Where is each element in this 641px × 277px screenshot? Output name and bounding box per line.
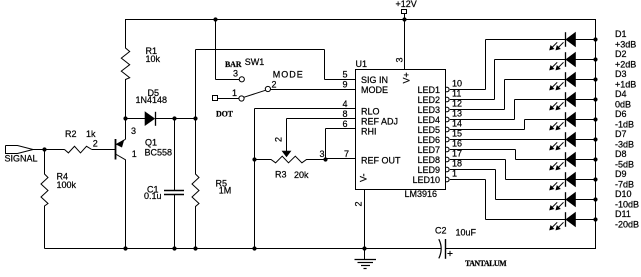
svg-text:-1dB: -1dB [615, 120, 634, 130]
node RLO to ground rail [252, 246, 256, 250]
svg-text:1: 1 [452, 169, 457, 179]
svg-text:2: 2 [93, 139, 98, 149]
svg-text:MODE: MODE [273, 69, 304, 79]
U1 LED output pin names [412, 85, 440, 185]
transistor Q1 BC558 [116, 119, 173, 249]
svg-text:R2: R2 [65, 129, 77, 139]
wire signal node to U1 pin 5 SIG IN [196, 50, 356, 119]
wire SIGNAL to R2/R4 [33, 149, 65, 151]
svg-text:15: 15 [452, 129, 462, 139]
svg-text:BAR: BAR [225, 60, 242, 69]
LED D10 -10dB [550, 189, 639, 210]
node LED D9 anode junction [593, 177, 597, 181]
+12V supply terminal [396, 0, 417, 20]
wire U1 pin 16 to LED cathode [450, 150, 565, 160]
svg-text:SW1: SW1 [245, 57, 265, 67]
wire U1 pin 4 RLO to ground rail [255, 109, 356, 249]
wire U1 pin 1 to LED cathode [450, 180, 565, 220]
svg-text:1k: 1k [86, 129, 96, 139]
svg-text:LED5: LED5 [417, 125, 440, 135]
op-amp U1 LM3916 body [356, 59, 446, 199]
svg-text:3: 3 [320, 149, 325, 159]
node LED D8 anode junction [593, 157, 597, 161]
svg-text:10: 10 [452, 79, 462, 89]
node ground junction [362, 246, 366, 250]
svg-text:18: 18 [452, 159, 462, 169]
svg-text:SIGNAL: SIGNAL [5, 154, 38, 164]
svg-text:SIG IN: SIG IN [361, 75, 388, 85]
U1 V+ pin 3 label [395, 57, 412, 83]
svg-text:3: 3 [233, 69, 238, 79]
svg-text:4: 4 [342, 99, 347, 109]
resistor R2 1k [65, 129, 97, 153]
svg-text:-5dB: -5dB [615, 160, 634, 170]
svg-text:LED10: LED10 [412, 175, 440, 185]
node D5/R5/signal junction [193, 116, 197, 120]
svg-text:REF OUT: REF OUT [361, 156, 401, 166]
node LED D4 anode junction [593, 97, 597, 101]
svg-text:7: 7 [344, 149, 349, 159]
svg-text:1: 1 [232, 88, 237, 98]
svg-text:Q1: Q1 [145, 138, 157, 148]
node LED D7 anode junction [593, 137, 597, 141]
svg-text:2: 2 [272, 79, 277, 89]
svg-text:D9: D9 [615, 169, 627, 179]
wire right anode rail [595, 20, 597, 250]
svg-text:TANTALUM: TANTALUM [465, 259, 507, 268]
svg-text:D11: D11 [615, 209, 631, 219]
LED D6 -1dB [550, 109, 634, 130]
LED D8 -5dB [550, 149, 634, 170]
svg-text:100k: 100k [57, 180, 77, 190]
switch SW1 lever and terminal 2 MODE [244, 69, 304, 97]
svg-text:5: 5 [342, 70, 347, 80]
svg-text:+2dB: +2dB [615, 60, 636, 70]
node LED D2 anode junction [593, 57, 597, 61]
svg-text:10uF: 10uF [456, 228, 477, 238]
svg-text:LED3: LED3 [417, 105, 440, 115]
node R3 right terminal junction [323, 157, 327, 161]
node top rail to SW1 branch [213, 17, 217, 21]
U1 left pin numbers [342, 70, 349, 160]
svg-text:+1dB: +1dB [615, 80, 636, 90]
svg-text:REF ADJ: REF ADJ [361, 117, 398, 127]
svg-text:8: 8 [342, 109, 347, 119]
svg-text:DOT: DOT [216, 110, 234, 119]
svg-text:MODE: MODE [361, 85, 388, 95]
svg-text:D6: D6 [615, 109, 627, 119]
wire +12V to U1 pin 3 [404, 20, 406, 70]
LED D11 -20dB [550, 209, 639, 230]
svg-text:LED9: LED9 [417, 165, 440, 175]
LED D2 +2dB [550, 49, 637, 70]
svg-text:D1: D1 [615, 29, 627, 39]
node R3 left terminal 1 [252, 157, 256, 161]
ground symbol [355, 249, 377, 269]
svg-text:20k: 20k [294, 170, 309, 180]
node +12V junction [402, 17, 406, 21]
svg-text:-3dB: -3dB [615, 140, 634, 150]
potentiometer R3 20k [255, 156, 326, 180]
resistor R4 100k [41, 150, 77, 249]
wire R2 to Q1 base, pin 2 [92, 139, 116, 150]
LED D9 -7dB [550, 169, 634, 190]
svg-text:LED7: LED7 [417, 145, 440, 155]
node R1/D5/Q1 junction [123, 116, 127, 120]
wire U1 pin 6 RHI to R3 terminal 3 [320, 129, 356, 160]
svg-text:+3dB: +3dB [615, 40, 636, 50]
svg-text:LED1: LED1 [417, 85, 440, 95]
switch SW1 terminal 3 BAR [225, 57, 264, 82]
svg-text:16: 16 [452, 139, 462, 149]
svg-text:+12V: +12V [396, 0, 417, 9]
node input junction [42, 147, 46, 151]
svg-text:3: 3 [395, 57, 405, 62]
LED D1 +3dB [550, 29, 637, 50]
svg-text:3: 3 [131, 126, 136, 136]
LED D7 -3dB [550, 129, 634, 150]
wire U1 pin 17 to LED cathode [450, 160, 565, 180]
svg-text:0dB: 0dB [615, 100, 631, 110]
node C1 to ground rail [172, 246, 176, 250]
capacitor C1 0.1u [144, 119, 184, 249]
svg-text:-10dB: -10dB [615, 200, 639, 210]
U1 output pin numbers [452, 79, 462, 179]
LED D3 +1dB [550, 69, 637, 90]
svg-text:13: 13 [452, 109, 462, 119]
svg-text:2: 2 [274, 137, 284, 142]
switch SW1 terminal 1 DOT [213, 88, 245, 119]
node D5/C1 junction [172, 116, 176, 120]
svg-text:D4: D4 [615, 89, 627, 99]
wire R3 wiper pin 2 to U1 pin 8 REF ADJ [274, 119, 356, 157]
wire bottom ground rail [45, 248, 442, 250]
wire top +12V rail [125, 19, 596, 21]
wire U1 pin 18 to LED cathode [450, 170, 565, 200]
svg-text:D8: D8 [615, 149, 627, 159]
node LED D11 anode junction [593, 217, 597, 221]
svg-text:R3: R3 [275, 170, 287, 180]
svg-text:LED8: LED8 [417, 155, 440, 165]
svg-text:D2: D2 [615, 49, 627, 59]
node Q1 collector to ground rail [123, 246, 127, 250]
svg-text:LED2: LED2 [417, 95, 440, 105]
svg-text:D3: D3 [615, 69, 627, 79]
svg-text:C2: C2 [435, 226, 447, 236]
svg-text:12: 12 [452, 99, 462, 109]
U1 V- pin 2 label [354, 173, 369, 206]
LED D4 0dB [550, 89, 631, 110]
wire U1 pin 12 to LED cathode [450, 80, 565, 110]
svg-text:U1: U1 [356, 59, 368, 69]
svg-text:BC558: BC558 [145, 148, 173, 158]
svg-text:1: 1 [132, 149, 137, 159]
svg-text:D7: D7 [615, 129, 627, 139]
svg-text:1N4148: 1N4148 [136, 95, 168, 105]
capacitor C2 10uF tantalum [435, 226, 507, 269]
svg-text:2: 2 [354, 201, 364, 206]
wire U1 pin 14 to LED cathode [450, 120, 565, 130]
resistor R5 1M [192, 119, 231, 249]
svg-text:14: 14 [452, 119, 462, 129]
wire U1 pin 15 to LED cathode [450, 139, 565, 141]
svg-text:V-: V- [359, 173, 369, 182]
wire U1 pin 13 to LED cathode [450, 100, 565, 120]
resistor R1 10k [121, 20, 160, 119]
U1 output pin bumps [446, 87, 450, 181]
svg-text:0.1u: 0.1u [144, 191, 162, 201]
svg-text:10k: 10k [146, 54, 161, 64]
svg-text:V+: V+ [402, 72, 412, 83]
svg-text:11: 11 [452, 89, 461, 99]
U1 left pin names [361, 75, 401, 166]
node R5 to ground rail [193, 246, 197, 250]
wire U1 pin 10 to LED cathode [450, 40, 565, 90]
connector SIGNAL input [5, 146, 38, 164]
wire U1 pin 7 REF OUT to R3 [326, 158, 356, 160]
node LED D3 anode junction [593, 77, 597, 81]
svg-text:LED6: LED6 [417, 135, 440, 145]
svg-text:-20dB: -20dB [615, 220, 639, 230]
node LED D10 anode junction [593, 197, 597, 201]
wire U1 pin 11 to LED cathode [450, 60, 565, 100]
diode D5 1N4148 [126, 88, 196, 126]
svg-text:LED4: LED4 [417, 115, 440, 125]
node LED D6 anode junction [593, 117, 597, 121]
svg-text:1M: 1M [219, 186, 232, 196]
wire SW1 terminal 2 to U1 pin 9 MODE [271, 89, 356, 91]
wire C2 positive to +12V rail [446, 248, 597, 250]
node LED D1 anode junction [593, 37, 597, 41]
svg-text:D10: D10 [615, 189, 632, 199]
svg-text:LM3916: LM3916 [405, 189, 438, 199]
svg-text:6: 6 [342, 119, 347, 129]
wire top rail to SW1 terminal 3 [216, 20, 240, 80]
svg-text:RLO: RLO [361, 107, 380, 117]
svg-text:-7dB: -7dB [615, 180, 634, 190]
svg-text:17: 17 [452, 149, 462, 159]
svg-text:RHI: RHI [361, 127, 377, 137]
svg-text:9: 9 [342, 80, 347, 90]
wire U1 pin 2 V- to ground rail [364, 190, 366, 249]
